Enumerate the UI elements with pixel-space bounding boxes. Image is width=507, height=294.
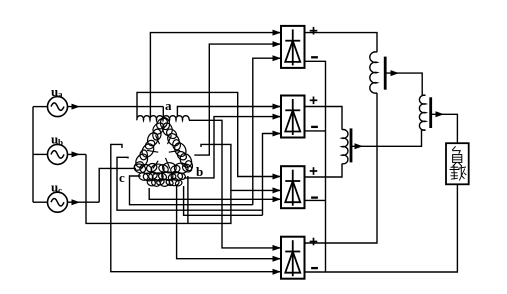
wire reactor L2 bottom -> U3 + <box>305 164 343 177</box>
wire L2 tap -> H3 bus <box>117 157 263 210</box>
wire U1 - to negative bus <box>305 61 326 272</box>
wire H4 lower-winding right end <box>184 186 263 215</box>
wire U2 + -> reactor L2 top <box>305 107 343 130</box>
wire H3 bus -> U2 in3 <box>263 131 282 216</box>
wire U3 - join <box>305 199 326 201</box>
wire lower-winding tap -> U4 in2 <box>177 186 281 262</box>
label - of U4 <box>311 267 318 269</box>
wire H2 bus->U1 in3 <box>253 55 281 205</box>
source u_c <box>48 180 68 213</box>
wire - u_c left stub <box>33 201 48 203</box>
wire L3 tap output -> load <box>431 111 458 143</box>
transformer delta winding right side <box>159 117 193 171</box>
wire L1 tap output -> L3 top <box>385 70 425 95</box>
wire u_c to node c <box>99 168 136 202</box>
wire right-coil tap T -> U3 in2 <box>201 144 281 193</box>
svg-text:a: a <box>165 98 172 113</box>
load box <box>446 143 469 184</box>
load text glyph 负 <box>452 146 462 166</box>
source u_b <box>48 132 68 165</box>
node b label <box>196 164 203 179</box>
wire U4 - bottom bus to load <box>305 184 458 272</box>
wire top-winding right end -> U4 in1 <box>189 120 281 251</box>
source u_a <box>48 84 68 117</box>
wire u_b detour to node b region <box>86 154 231 223</box>
load text glyph 载 <box>450 165 467 181</box>
wire u_c output with arrow <box>68 199 100 205</box>
wire reactor L1 bottom -> U4 + <box>305 93 378 243</box>
rectifier bridge U2 <box>281 96 305 138</box>
transformer winding lower stub row2 <box>146 178 183 187</box>
wire U2 - join <box>305 130 326 132</box>
transformer delta winding bottom side <box>133 162 193 175</box>
label + of U2 <box>310 97 318 105</box>
reactor L2 core bar <box>350 128 353 162</box>
reactor L3 core bar <box>429 97 432 128</box>
wire tap1->U1 in1 <box>150 30 281 117</box>
wire - left bus connecting sources <box>32 107 34 203</box>
label - of U3 <box>311 196 318 198</box>
transformer delta winding left side <box>133 116 170 172</box>
wire right-coil tap->U1 in2 <box>194 41 281 155</box>
wire - u_b left stub <box>33 153 48 155</box>
label + of U1 <box>310 27 318 35</box>
label - of U2 <box>311 126 318 128</box>
wire u_b output with arrow <box>68 151 87 157</box>
wire top loop -> U3 in1 <box>137 92 281 179</box>
svg-text:c: c <box>58 186 62 196</box>
svg-text:c: c <box>119 170 125 185</box>
wire lower-winding tap -> U3 in3 <box>149 188 281 202</box>
wire lower-winding left end -> H2 bus <box>130 176 253 205</box>
label - of U1 <box>311 56 318 58</box>
svg-text:a: a <box>58 90 63 100</box>
transformer winding interior strokes <box>147 135 180 168</box>
wire node b -> U2 in2 <box>184 114 281 178</box>
rectifier bridge U4 <box>281 237 305 279</box>
node c label <box>119 170 125 185</box>
rectifier bridge U1 <box>281 26 305 68</box>
svg-text:b: b <box>58 138 63 148</box>
interphase reactor L1 winding <box>370 52 377 93</box>
wire node b down to u_b bus <box>187 176 189 223</box>
wire node a tap down <box>162 107 164 118</box>
wire U1 + -> reactor L1 top <box>305 33 378 53</box>
label + of U3 <box>310 167 318 175</box>
wire - u_a left stub <box>33 106 48 108</box>
transformer winding b/c lower stub row1 <box>138 171 187 182</box>
interphase reactor L3 winding <box>419 95 425 130</box>
transformer winding a (top stub) <box>137 116 189 121</box>
reactor L1 core bar <box>384 57 387 90</box>
label + of U4 <box>310 238 318 246</box>
interphase reactor L2 winding <box>342 130 348 164</box>
wire L1 tap -> U4 in3 <box>111 144 281 274</box>
wire L2 tap output -> L3 bottom <box>351 130 426 149</box>
svg-text:b: b <box>196 164 203 179</box>
rectifier bridge U3 <box>281 166 305 208</box>
wire u_a output with arrow <box>68 104 164 110</box>
node a label <box>165 98 172 113</box>
wire tap a2 -> U2 in1 <box>177 104 281 118</box>
